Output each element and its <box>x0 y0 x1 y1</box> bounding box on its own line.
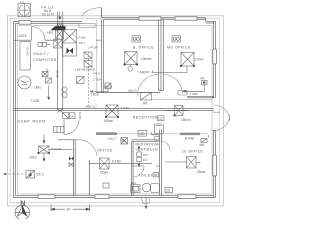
svg-text:DATA: DATA <box>19 34 28 38</box>
EF2 box <box>26 171 35 179</box>
wire dashed horizontal with arrow <box>90 91 108 93</box>
FA device right <box>202 80 208 85</box>
restroom left wall <box>132 141 134 195</box>
wire through F6 <box>165 161 187 163</box>
door arc right wall upper <box>214 105 230 121</box>
wire from F2 <box>152 66 188 73</box>
window right upper <box>213 49 217 64</box>
svg-text:RECEPTION: RECEPTION <box>133 116 158 120</box>
chase device circles <box>62 87 67 98</box>
svg-text:A5gm: A5gm <box>100 170 109 174</box>
svg-text:B. OFFICE: B. OFFICE <box>133 46 154 50</box>
office bottom-left wall top <box>58 139 77 141</box>
svg-text:200c: 200c <box>30 156 37 160</box>
svg-text:B F149: B F149 <box>52 147 62 151</box>
vault device cluster box2 <box>46 78 52 83</box>
corridor line y99.7 <box>152 99 213 101</box>
boxed tag D3 reception <box>158 116 165 121</box>
sheet background <box>0 0 231 219</box>
light fixture F6 office right <box>187 157 197 169</box>
svg-text:2 7DV: 2 7DV <box>93 77 101 81</box>
RA box <box>141 93 152 101</box>
reception desk <box>152 124 164 135</box>
svg-text:1Bum: 1Bum <box>197 170 206 174</box>
svg-text:VESTIBULE: VESTIBULE <box>136 148 159 152</box>
svg-text:-1B16: -1B16 <box>90 93 99 97</box>
svg-text:10-0B: 10-0B <box>78 112 82 120</box>
door arc restroom lower <box>133 166 144 177</box>
light fixture F3 corridor <box>105 105 119 118</box>
restroom top wall <box>132 140 159 142</box>
north arrow <box>15 205 30 220</box>
WC box 1 <box>137 152 142 156</box>
exterior wall: top-right section <box>102 18 206 20</box>
svg-text:L1B-1B 1Bv1B: L1B-1B 1Bv1B <box>75 68 95 72</box>
wire through F5 <box>89 162 152 164</box>
light fixture F1 office B <box>124 52 138 66</box>
wall devices x74 <box>69 157 74 161</box>
light fixture F4 reception <box>174 106 183 117</box>
duplex receptacle vault <box>38 42 50 46</box>
svg-text:165cm: 165cm <box>104 119 114 123</box>
small x-box reception left <box>121 138 128 145</box>
svg-text:03+03: 03+03 <box>26 48 30 57</box>
vault cluster stem <box>47 69 50 100</box>
boxed tag A-1 <box>63 113 76 119</box>
svg-text:COMP. ROOM: COMP. ROOM <box>18 119 46 123</box>
window top-right <box>175 17 197 20</box>
door pocket <box>178 91 187 96</box>
svg-text:MG OFFICE: MG OFFICE <box>167 46 191 50</box>
inner sheet frame <box>10 19 219 203</box>
counter bar right <box>180 133 200 135</box>
window bottom-left <box>38 195 55 199</box>
restroom mid wall <box>132 165 160 167</box>
tiny tag near chair <box>155 137 160 142</box>
EF2 dashed feeder <box>8 173 26 175</box>
boxed tag 02B <box>138 130 147 136</box>
counter hook <box>208 135 210 138</box>
interior wall: corridor horizontal <box>14 109 214 111</box>
exterior wall: top-left section <box>14 22 83 24</box>
EF1 stems <box>43 135 45 162</box>
chase end X <box>57 109 62 113</box>
light fixture F2 office MG <box>180 52 195 67</box>
wire right of F6 <box>196 161 201 163</box>
interior wall y92.5 <box>96 92 160 94</box>
break room device 2 <box>84 61 92 68</box>
exterior wall: bottom <box>14 196 216 198</box>
wire FA down <box>183 85 204 93</box>
door arc vestibule-office <box>162 142 171 151</box>
stoop arrow <box>145 198 147 209</box>
svg-text:D1: D1 <box>154 173 158 177</box>
furring line left of wall C <box>96 20 98 93</box>
svg-text:7 1B/L: 7 1B/L <box>190 92 199 96</box>
junction box on chase <box>58 23 64 29</box>
wire through F4 <box>166 110 189 112</box>
down arrow to chase <box>59 12 61 20</box>
svg-text:130cfm: 130cfm <box>141 57 152 61</box>
svg-text:LU: LU <box>20 0 24 4</box>
entry stoop <box>79 24 95 28</box>
black wedge symbol <box>51 26 66 30</box>
OO junction box office MG <box>172 36 181 42</box>
outer sheet frame <box>7 16 223 206</box>
svg-text:VAULT /: VAULT / <box>33 52 49 56</box>
wall step top-right <box>206 18 216 24</box>
D tag circle <box>128 67 133 72</box>
wire EF1 to wall <box>49 149 73 151</box>
svg-text:NA: NA <box>200 143 205 147</box>
window bottom-mid <box>95 195 109 199</box>
svg-text:02B: 02B <box>139 132 145 136</box>
interior wall B lower: restroom/office divider <box>160 130 162 196</box>
entry door swing arc <box>82 8 102 17</box>
window top-mid <box>139 17 161 20</box>
svg-text:1E OFFICE: 1E OFFICE <box>182 150 203 154</box>
gate room south wall <box>14 39 58 41</box>
svg-text:D3: D3 <box>166 189 170 193</box>
X-box A on chase <box>56 29 64 40</box>
svg-text:17x1B: 17x1B <box>77 36 85 40</box>
svg-text:EF 2: EF 2 <box>37 173 44 177</box>
svg-text:17b/m: 17b/m <box>195 58 204 62</box>
svg-text:1M/s: 1M/s <box>34 86 41 90</box>
exterior wall: left <box>14 22 16 198</box>
svg-text:1Bx1B: 1Bx1B <box>104 85 112 89</box>
gate room door leaf <box>31 27 33 41</box>
dark bowtie in unit <box>67 48 74 55</box>
threshold tick right door <box>213 111 220 113</box>
light fixture F5 office bottom <box>100 158 110 169</box>
AHU unit tall rect <box>63 30 77 57</box>
svg-text:RESTROOM/: RESTROOM/ <box>136 143 160 147</box>
svg-text:N: N <box>20 200 25 207</box>
toilet tag box <box>153 173 159 177</box>
door arc comp room swing <box>64 120 79 135</box>
door arc office bottom <box>77 140 97 156</box>
X-box B on chase <box>54 40 63 49</box>
window top-left <box>19 21 31 25</box>
small box right K4D <box>201 138 207 142</box>
svg-text:HP1: HP1 <box>47 31 53 35</box>
exterior wall: right <box>212 21 216 197</box>
svg-text:NA: NA <box>121 139 126 143</box>
svg-text:9 K4D: 9 K4D <box>112 159 122 163</box>
wire from F1 <box>130 65 132 67</box>
sink toilet room <box>131 185 140 193</box>
svg-text:4 B.A: 4 B.A <box>93 71 100 75</box>
interior wall B: between offices <box>159 20 164 91</box>
interior wall C <box>102 20 104 93</box>
round table comp area <box>18 76 31 89</box>
break room device 1 <box>84 52 92 59</box>
svg-text:J4B1-LC: J4B1-LC <box>85 105 98 109</box>
toilet fixture <box>142 183 159 192</box>
svg-text:a a a: a a a <box>96 39 102 42</box>
WC box 2 <box>137 157 142 161</box>
svg-text:50 12 M: 50 12 M <box>42 13 54 17</box>
OO junction box office B <box>132 36 141 42</box>
svg-text:1/2: 1/2 <box>143 158 148 162</box>
WC arrows <box>138 146 140 167</box>
3-cell symbol comp room <box>54 127 65 133</box>
entry door leaf <box>101 8 103 18</box>
svg-text:WC: WC <box>143 153 149 157</box>
counter line <box>96 133 208 135</box>
svg-text:OFFICE: OFFICE <box>97 149 113 153</box>
svg-text:15x1B: 15x1B <box>55 70 59 78</box>
window bottom-right <box>178 195 196 199</box>
vault tall cabinet <box>20 42 31 71</box>
svg-text:2 POW: 2 POW <box>88 46 98 50</box>
door arc comp room <box>63 120 65 135</box>
door arc right wall lower <box>214 115 230 131</box>
window right lower <box>213 155 217 176</box>
office wall x89 <box>88 160 90 196</box>
wire dashed vertical break room <box>88 52 90 105</box>
small box bottom mid <box>103 183 109 188</box>
svg-text:12v 7: 12v 7 <box>108 137 116 141</box>
EF2 arrow tip <box>3 173 6 175</box>
roof fan symbol (4-quadrant) <box>18 4 31 17</box>
svg-text:30': 30' <box>66 208 71 212</box>
interior wall right horizontal <box>187 96 214 98</box>
bottom stoop <box>142 198 151 204</box>
receptacle box near chase <box>77 77 85 84</box>
counter bar left <box>96 132 117 135</box>
interior wall: chase section line <box>57 12 62 111</box>
tick on feeder <box>29 171 31 178</box>
svg-text:165cm: 165cm <box>181 118 191 122</box>
exhaust fan EF1 <box>38 146 50 154</box>
office wall x74 <box>74 140 76 196</box>
unit label leader <box>72 34 77 37</box>
door arc wall B <box>138 75 159 96</box>
wall device bowtie 2 <box>69 163 74 167</box>
svg-text:D3: D3 <box>158 117 162 121</box>
svg-text:24: 24 <box>70 114 74 118</box>
boxed tag D3 bottom <box>165 187 173 192</box>
door arc gate room <box>32 27 46 41</box>
vault device cluster box1 <box>42 72 48 77</box>
svg-text:1Bv13: 1Bv13 <box>128 88 137 92</box>
device on wall y92 <box>105 83 111 93</box>
svg-text:COMPUTER: COMPUTER <box>33 58 57 62</box>
svg-text:7 K4D: 7 K4D <box>31 99 41 103</box>
svg-text:TOILET: TOILET <box>138 173 153 177</box>
dimension line <box>51 205 90 212</box>
building inner face light outline <box>17 25 212 194</box>
svg-text:B K4D: B K4D <box>185 136 195 140</box>
door arc wall B right <box>163 75 182 94</box>
svg-text:1B C: 1B C <box>79 41 85 45</box>
svg-text:BF1: BF1 <box>131 181 137 185</box>
svg-text:7 K4D: 7 K4D <box>121 106 130 110</box>
